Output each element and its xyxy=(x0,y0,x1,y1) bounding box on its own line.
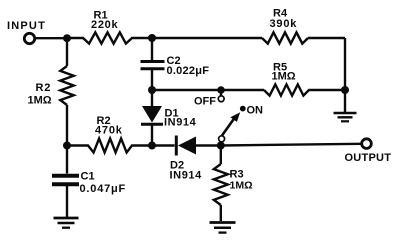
svg-text:470k: 470k xyxy=(95,125,123,137)
resistor R2 1M vertical xyxy=(60,66,73,105)
switch pivot xyxy=(219,136,225,146)
capacitor C1 xyxy=(52,146,79,218)
wire node A down to node C xyxy=(66,38,68,66)
terminal OUTPUT xyxy=(362,139,372,149)
resistor R5 xyxy=(264,84,345,95)
wire input to node A xyxy=(35,37,67,39)
svg-text:C1: C1 xyxy=(81,171,95,183)
svg-text:OUTPUT: OUTPUT xyxy=(345,152,392,164)
node C xyxy=(63,142,71,150)
resistor R4 xyxy=(262,32,308,43)
wire R4 to corner xyxy=(308,37,345,39)
terminal INPUT xyxy=(24,33,34,43)
svg-text:1MΩ: 1MΩ xyxy=(272,71,296,83)
switch OFF contact xyxy=(218,90,224,102)
node D xyxy=(148,142,156,150)
node OFF junction xyxy=(217,86,225,94)
diode D2 xyxy=(152,136,221,156)
resistor R1 xyxy=(67,32,152,43)
svg-text:0.022μF: 0.022μF xyxy=(167,65,210,77)
node G xyxy=(341,86,349,94)
wire node F to R5 xyxy=(152,89,264,91)
svg-text:220k: 220k xyxy=(91,19,118,31)
svg-text:1MΩ: 1MΩ xyxy=(230,180,253,192)
switch ON contact xyxy=(240,106,246,112)
wire node B to R4 xyxy=(152,37,262,39)
node B xyxy=(148,34,156,42)
svg-text:R2: R2 xyxy=(36,82,52,94)
svg-text:IN914: IN914 xyxy=(170,170,203,182)
ground below R3 xyxy=(210,223,236,233)
ground right xyxy=(334,90,357,121)
switch arm xyxy=(222,112,240,135)
wire R2 to node C xyxy=(66,105,68,146)
node A xyxy=(63,34,71,42)
wire corner down to node G xyxy=(344,38,346,90)
diode D1 xyxy=(141,90,163,146)
svg-text:IN914: IN914 xyxy=(164,117,197,129)
node F xyxy=(148,86,156,94)
svg-text:OFF: OFF xyxy=(194,96,216,108)
svg-text:0.047μF: 0.047μF xyxy=(80,183,127,195)
wire node E to output xyxy=(221,144,362,146)
svg-text:390k: 390k xyxy=(270,18,298,30)
resistor R2 470k xyxy=(67,139,152,153)
ground below C1 xyxy=(54,218,79,228)
resistor R3 xyxy=(214,146,228,222)
svg-text:ON: ON xyxy=(247,104,264,116)
capacitor C2 xyxy=(141,62,165,91)
svg-text:1MΩ: 1MΩ xyxy=(28,95,52,107)
wire node B down to C2 xyxy=(151,38,153,61)
node E xyxy=(217,142,225,150)
svg-text:INPUT: INPUT xyxy=(7,20,46,32)
